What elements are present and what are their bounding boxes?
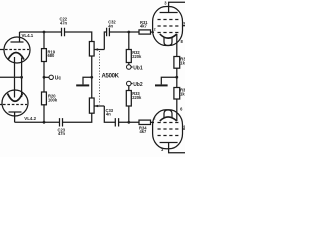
VL4.2 cathode arc — [8, 94, 23, 102]
svg-text:4n: 4n — [106, 112, 111, 117]
potentiometer gang 1 — [89, 42, 94, 57]
wire R36 to bottom tube cathode — [176, 99, 178, 121]
resistor R34 — [139, 120, 151, 124]
node ground tap — [90, 76, 93, 79]
wire Ub2 to R33 — [128, 86, 130, 91]
node cathode ground — [175, 76, 178, 79]
svg-text:2: 2 — [154, 27, 156, 31]
pentode top heater — [164, 37, 172, 46]
svg-text:Ub1: Ub1 — [133, 65, 143, 71]
wire top rail left — [20, 31, 62, 33]
pentode bottom envelope — [153, 110, 183, 149]
svg-text:680: 680 — [48, 53, 56, 58]
VL4.2 heater legs — [15, 77, 22, 97]
svg-text:A500K: A500K — [102, 74, 120, 80]
pentode bottom g2 — [158, 128, 179, 130]
capacitor C22 — [62, 28, 65, 36]
pentode bottom g3 — [158, 135, 179, 137]
VL4.2 grid lead — [0, 104, 2, 106]
svg-text:100k: 100k — [48, 97, 58, 102]
wire R35 to ground node — [176, 68, 178, 87]
svg-text:220k: 220k — [132, 54, 142, 59]
wire R33 to bottom node — [128, 106, 130, 122]
wire R20 to bottom rail — [43, 105, 45, 123]
wire plate chain top — [43, 32, 45, 49]
VL4.1 cathode arc — [8, 53, 24, 60]
potentiometer gang 2 — [89, 98, 94, 113]
terminal Ub1 — [127, 65, 132, 70]
pentode bottom cathode arc — [160, 117, 177, 121]
gang link dotted — [98, 51, 100, 105]
capacitor C23 — [60, 118, 63, 126]
wire top rail right — [65, 32, 92, 42]
resistor R33 — [126, 91, 131, 107]
svg-text:VL4.1: VL4.1 — [22, 33, 34, 38]
svg-text:4k7: 4k7 — [140, 129, 148, 134]
capacitor C32 — [107, 28, 110, 36]
pot1 wiper arrow — [94, 49, 104, 51]
capacitor C33 — [115, 118, 118, 126]
pentode top g1 — [158, 32, 179, 34]
node bottom rail junction — [43, 121, 46, 124]
svg-text:47n: 47n — [60, 21, 68, 26]
resistor R31 — [139, 30, 151, 34]
pentode bottom g2 lead — [182, 128, 185, 130]
svg-text:VL4.2: VL4.2 — [24, 116, 36, 121]
wire R31 to tube grid — [151, 31, 155, 33]
VL4.2 grid — [3, 104, 27, 106]
wire C33 to node — [119, 121, 139, 123]
wire bottom rail right — [63, 113, 92, 122]
svg-text:4n: 4n — [108, 23, 113, 28]
pentode top g2 — [158, 25, 179, 27]
wire bottom rail left — [15, 121, 60, 123]
node cathode junction — [20, 76, 23, 79]
svg-text:1k: 1k — [180, 91, 185, 96]
pentode bottom plate — [160, 143, 185, 153]
resistor R35 — [174, 57, 180, 69]
resistor R20 — [42, 92, 47, 105]
svg-text:47n: 47n — [58, 131, 66, 136]
resistor R32 — [126, 50, 131, 63]
pentode top envelope — [153, 7, 183, 46]
pentode top cathode arc — [160, 34, 177, 38]
wire node to R20 — [43, 77, 45, 92]
wire R19 to node — [43, 62, 45, 78]
node grid1 top — [127, 31, 130, 34]
pentode top cathode lead — [176, 34, 178, 57]
wire cathode bus — [0, 76, 22, 78]
wire C32 to node — [109, 31, 139, 33]
VL4.1 grid lead — [0, 49, 4, 51]
VL4.1 plate — [11, 32, 24, 42]
node Uc junction — [43, 76, 46, 79]
wire R32 to Ub1 — [128, 63, 130, 65]
pentode top g3 — [158, 19, 179, 21]
resistor R36 — [174, 88, 180, 100]
wire pot mid rail — [91, 56, 93, 98]
svg-text:1k: 1k — [180, 61, 185, 66]
triode VL4.2 envelope — [2, 90, 28, 116]
ground left — [83, 77, 92, 84]
node top rail junction — [43, 31, 46, 34]
wire R34 to tube grid — [151, 121, 155, 123]
svg-text:4k7: 4k7 — [140, 24, 148, 29]
wire pot1 wiper to C32 — [104, 32, 106, 50]
VL4.1 grid — [5, 49, 29, 51]
pentode top g2 lead — [182, 25, 185, 27]
pentode bottom heater — [164, 110, 172, 118]
wire node to R32 — [128, 32, 130, 50]
pentode bottom g1 — [158, 122, 179, 124]
svg-text:9: 9 — [183, 125, 185, 129]
pentode top plate — [160, 2, 185, 12]
svg-text:Ub2: Ub2 — [133, 82, 143, 88]
node grid2 bottom — [127, 121, 130, 124]
VL4.2 plate — [9, 112, 22, 122]
svg-text:220k: 220k — [132, 95, 142, 100]
svg-text:Uc: Uc — [55, 75, 62, 81]
triode VL4.1 envelope — [4, 37, 30, 63]
terminal Uc — [44, 76, 49, 78]
ground right — [161, 77, 177, 84]
VL4.1 heater legs — [15, 57, 22, 77]
terminal Ub2 — [127, 81, 132, 86]
wire pot2 wiper to C33 — [104, 106, 115, 122]
pot2 wiper arrow — [94, 105, 104, 107]
svg-text:9: 9 — [183, 21, 185, 25]
resistor R19 — [42, 49, 47, 62]
